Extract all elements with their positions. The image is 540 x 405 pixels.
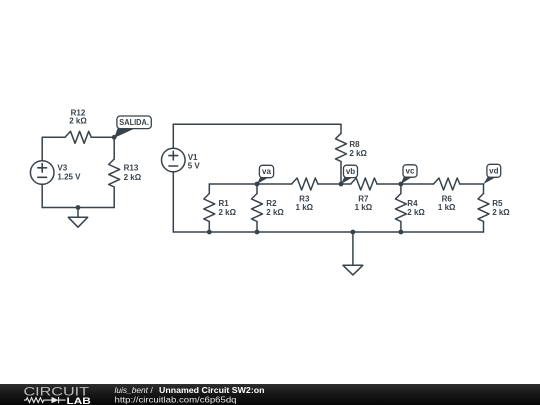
wire (173, 231, 483, 233)
resistor R3 (292, 178, 318, 212)
voltage source V1 (162, 148, 201, 172)
junction vc (399, 182, 404, 187)
svg-text:R8: R8 (349, 140, 360, 149)
wire (42, 207, 114, 209)
resistor R13 (109, 137, 142, 207)
junction vb (339, 182, 344, 187)
svg-text:vc: vc (406, 167, 415, 176)
wire (209, 183, 291, 185)
voltage source V3 (30, 161, 81, 185)
svg-text:5 V: 5 V (188, 161, 201, 170)
node flag vd (484, 164, 501, 184)
svg-text:R13: R13 (124, 164, 139, 173)
wire (318, 183, 351, 185)
resistor R2 (252, 184, 285, 232)
resistor R8 (336, 124, 368, 184)
svg-text:1 kΩ: 1 kΩ (355, 203, 373, 212)
svg-text:Unnamed Circuit SW2:on: Unnamed Circuit SW2:on (159, 385, 265, 395)
resistor R5 (478, 184, 510, 232)
resistor R6 (434, 178, 460, 212)
wire (172, 124, 174, 148)
wire (173, 123, 341, 125)
svg-text:vb: vb (346, 167, 355, 176)
svg-text:1 kΩ: 1 kΩ (296, 203, 314, 212)
node SALIDA junction (112, 135, 117, 140)
svg-text:2 kΩ: 2 kΩ (69, 117, 87, 126)
svg-text:2 kΩ: 2 kΩ (407, 208, 425, 217)
svg-text:2 kΩ: 2 kΩ (124, 173, 142, 182)
svg-text:1 kΩ: 1 kΩ (438, 203, 456, 212)
resistor R12 (65, 108, 91, 143)
ground (68, 205, 87, 227)
resistor R1 (204, 184, 237, 232)
svg-text:1.25 V: 1.25 V (57, 173, 81, 182)
svg-text:2 kΩ: 2 kΩ (492, 208, 510, 217)
svg-text:vd: vd (489, 166, 498, 175)
resistor R7 (351, 178, 377, 212)
node flag va (257, 165, 274, 184)
wire (41, 137, 43, 160)
svg-text:luis_bent: luis_bent (115, 385, 149, 395)
flag SALIDA (114, 116, 151, 138)
ground (343, 230, 363, 275)
wire (91, 136, 114, 138)
resistor R4 (395, 184, 425, 232)
svg-text:2 kΩ: 2 kΩ (349, 149, 367, 158)
junction R2-bottom (255, 230, 260, 235)
footer title text (115, 385, 265, 395)
svg-text:LAB: LAB (67, 396, 91, 405)
wire (41, 184, 43, 207)
wire (377, 183, 434, 185)
svg-text:http://circuitlab.com/c6p65dq: http://circuitlab.com/c6p65dq (115, 394, 237, 404)
svg-text:V3: V3 (57, 163, 67, 172)
wire (460, 183, 484, 185)
svg-text:SALIDA.: SALIDA. (119, 118, 149, 127)
svg-text:2 kΩ: 2 kΩ (266, 208, 284, 217)
wire (42, 136, 65, 138)
junction va (255, 182, 260, 187)
node flag vb (341, 165, 358, 184)
junction R4-bottom (399, 230, 404, 235)
wire (172, 172, 174, 232)
junction R1-bottom (207, 230, 212, 235)
node flag vc (401, 165, 417, 184)
logo CircuitLab (24, 385, 91, 405)
svg-text:va: va (262, 167, 271, 176)
svg-text:2 kΩ: 2 kΩ (219, 208, 237, 217)
